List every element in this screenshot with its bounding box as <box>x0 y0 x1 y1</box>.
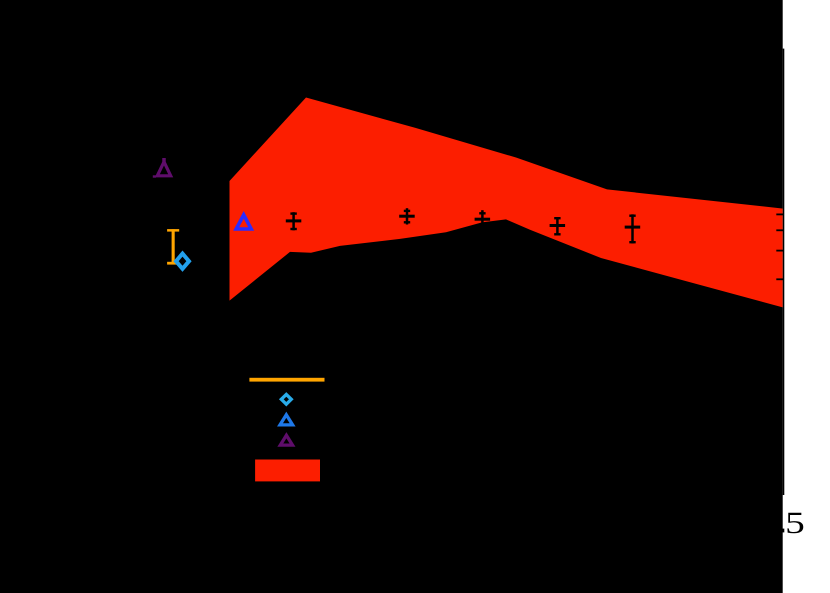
legend: blue triangle sample <box>280 415 293 425</box>
purple open triangle marker <box>157 158 170 176</box>
data error bar 3 <box>475 210 491 226</box>
blue open triangle marker <box>236 215 251 229</box>
purple marker small dash artifact <box>153 175 156 177</box>
decimal point of the 0.5 label <box>781 529 784 533</box>
data error bar 1 <box>286 212 302 230</box>
data error bar 4 <box>550 217 566 236</box>
legend: purple triangle sample <box>280 435 292 445</box>
y-axis tick 0.2 <box>776 278 783 280</box>
legend: red band sample <box>255 460 320 482</box>
data error bar 2 <box>399 208 415 224</box>
y-axis tick 0.5 <box>776 214 783 216</box>
svg-text:5: 5 <box>785 505 805 540</box>
legend: orange line sample <box>249 378 324 382</box>
cyan open diamond marker <box>176 254 189 269</box>
data error bar 5 <box>625 214 641 243</box>
orange error bar <box>167 229 179 264</box>
white canvas margin (right side) <box>783 0 830 593</box>
y-axis tick 0.4 <box>776 229 783 231</box>
red uncertainty band <box>230 98 784 308</box>
legend: cyan diamond sample <box>281 394 291 404</box>
y-axis tick 0.3 <box>776 250 783 252</box>
y-axis right spine <box>783 49 785 495</box>
